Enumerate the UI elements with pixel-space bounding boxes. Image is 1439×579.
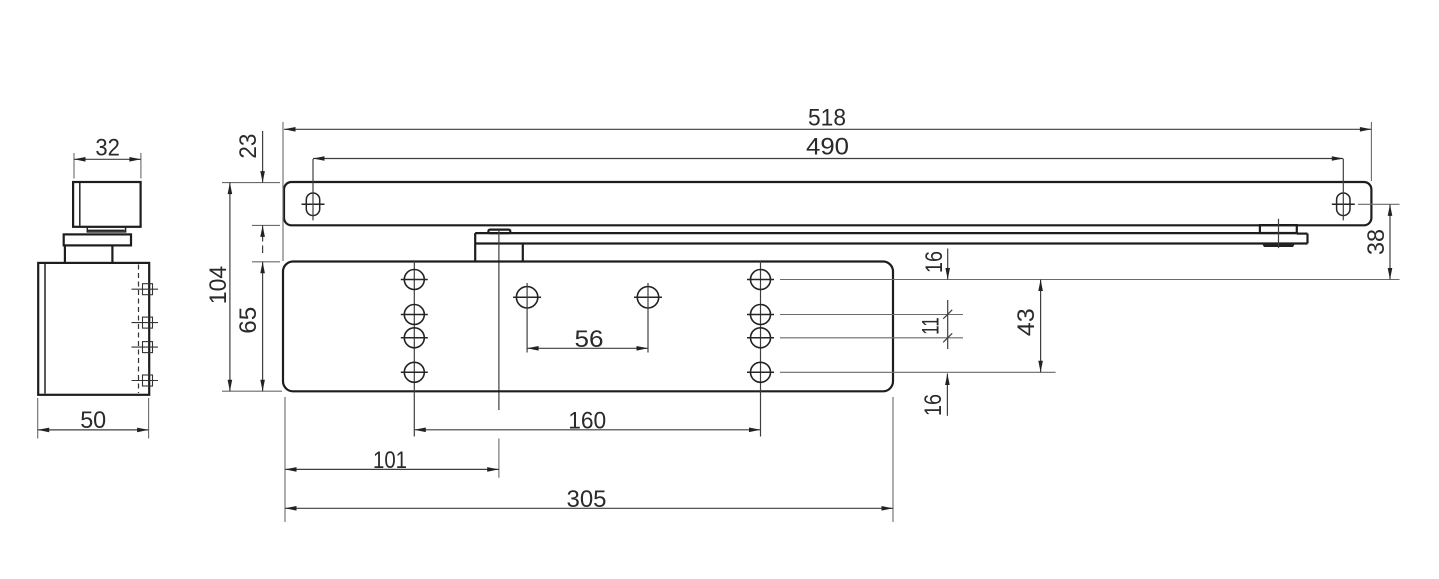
right slot axis extension (1358, 203, 1400, 205)
svg-text:518: 518 (808, 104, 846, 131)
slider pad (dark) (1262, 244, 1295, 248)
side view: hidden screw bosses (143, 284, 153, 295)
rail left slotted hole (306, 193, 319, 216)
svg-text:16: 16 (920, 394, 947, 416)
arm bar (475, 232, 1297, 234)
dimension 56 (middle holes) (527, 347, 648, 349)
svg-text:11: 11 (918, 317, 945, 335)
side view: neck (64, 246, 66, 263)
svg-text:23: 23 (235, 134, 262, 159)
dimension 104 (total height) (222, 390, 282, 392)
dimension 65 (body height) (252, 261, 280, 263)
svg-text:104: 104 (205, 266, 232, 305)
side view: closer body (38, 263, 149, 395)
dimension 43 (row1 to row4) (1040, 280, 1042, 373)
rail right slotted hole (1337, 193, 1350, 216)
row 3 extension line (780, 337, 963, 339)
row 4 extension line (780, 371, 1056, 373)
left column holes (404, 270, 424, 290)
dimension 11 (rows 2-3) (947, 300, 949, 349)
slide rail (top channel) (284, 182, 1371, 225)
left hole column centerline (413, 261, 415, 437)
svg-text:38: 38 (1363, 229, 1390, 255)
row 1 extension line (780, 279, 1400, 281)
right hole column centerline (760, 261, 762, 437)
svg-text:305: 305 (567, 486, 607, 513)
dimension 23 (rail height) (222, 182, 280, 184)
svg-text:65: 65 (235, 307, 262, 334)
pivot axis line (498, 230, 500, 410)
dimension 490 (hole spacing) (313, 158, 1343, 160)
side view: collar below cap (87, 227, 125, 232)
row 2 extension line (780, 314, 963, 316)
closer body plate (283, 262, 893, 392)
right column holes (751, 270, 771, 290)
slider end block right (1297, 233, 1308, 235)
svg-text:101: 101 (373, 447, 407, 474)
pivot cap screw (488, 230, 510, 234)
side view: flange plate (64, 234, 131, 245)
middle hole pair (516, 287, 537, 308)
dimension 305 (body length) (284, 397, 286, 522)
slider axis line (1278, 219, 1280, 248)
svg-text:160: 160 (568, 407, 606, 434)
arm pivot boss (522, 244, 524, 262)
slider end block upper (1260, 225, 1297, 233)
svg-text:16: 16 (921, 251, 948, 273)
dimension 50 (body width) (37, 398, 39, 439)
svg-text:50: 50 (80, 407, 106, 434)
dimension 38 (slot to row1) (1389, 204, 1391, 279)
svg-text:43: 43 (1013, 308, 1040, 336)
dimension 101 (pivot offset) (498, 439, 500, 478)
dimension 32 (cap width) (73, 153, 75, 179)
dimension 160 (hole columns) (414, 429, 760, 431)
side view: slide-channel cap (73, 182, 141, 227)
dimension 16 bottom (row4 to edge) (946, 374, 948, 416)
svg-text:490: 490 (806, 134, 849, 161)
dimension 16 top (arm to row1) (947, 249, 949, 280)
svg-text:32: 32 (95, 135, 120, 162)
svg-text:56: 56 (575, 326, 604, 353)
side view: hidden screw line (dashed) (138, 265, 140, 394)
dimension 518 (rail length) (282, 122, 284, 261)
